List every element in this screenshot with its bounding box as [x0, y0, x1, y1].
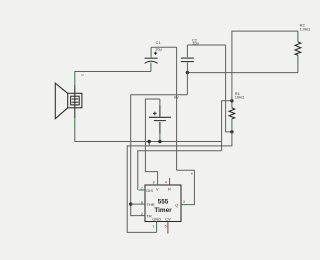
C2 bottom lead	[186, 63, 188, 73]
speaker LS1 horn	[55, 83, 67, 119]
speaker top lead	[74, 74, 76, 86]
svg-text:6: 6	[141, 201, 143, 205]
svg-text:GND: GND	[152, 216, 161, 221]
pin 4 R lead (unconnected)	[169, 178, 171, 185]
svg-text:1.0kΩ: 1.0kΩ	[300, 26, 311, 31]
svg-text:TR: TR	[146, 213, 151, 218]
speaker LS1 inner driver	[71, 96, 80, 105]
svg-text:9V: 9V	[174, 95, 179, 100]
node mark	[191, 173, 193, 175]
wire THR stub	[131, 203, 139, 205]
wire elbow to Q pin	[177, 170, 195, 204]
svg-text:555: 555	[158, 199, 169, 206]
pin 2 TR lead	[139, 215, 145, 217]
svg-text:C1: C1	[156, 40, 162, 45]
wire timing net right (to R2 bottom)	[187, 72, 298, 74]
C1 top lead	[150, 47, 152, 57]
wire GND pin path	[156, 229, 158, 233]
battery top lead	[159, 99, 161, 101]
wire drop from C2 top wire to R1 bottom	[226, 45, 232, 132]
IC U1 555 timer box	[145, 185, 181, 222]
wire THR net left vertical	[131, 95, 139, 216]
wire R1 top link	[222, 101, 232, 151]
junction battery minus	[158, 140, 161, 143]
svg-text:u: u	[82, 73, 84, 77]
svg-text:1: 1	[153, 224, 155, 228]
junction R1 bottom	[230, 130, 233, 133]
C1 plus sign	[154, 52, 157, 55]
battery bottom lead	[159, 122, 161, 134]
battery V1 plates	[149, 116, 171, 118]
svg-text:10kΩ: 10kΩ	[235, 94, 244, 99]
pin 7 DIS lead	[139, 189, 145, 191]
svg-text:3: 3	[183, 200, 185, 204]
wire speaker top to C1 bottom	[75, 72, 151, 74]
capacitor C2	[181, 57, 194, 59]
wire THR net horizontal	[131, 94, 188, 96]
wire drop C2 bottom to THR net	[186, 73, 188, 95]
svg-text:8: 8	[153, 180, 155, 184]
pin 3 Q lead	[181, 204, 189, 206]
svg-text:5: 5	[165, 224, 167, 228]
junction stub	[148, 140, 151, 143]
wire DIS net horizontal (y 150.8)	[138, 151, 222, 190]
svg-text:Timer: Timer	[154, 207, 172, 214]
svg-text:Q: Q	[175, 202, 178, 207]
wire top right rectangle	[232, 31, 298, 101]
battery plus sign	[153, 112, 157, 116]
pin 8 V lead	[157, 179, 159, 186]
svg-text:V: V	[156, 186, 159, 191]
svg-text:R: R	[168, 186, 171, 191]
svg-text:4: 4	[165, 180, 167, 184]
wire C2 top to right	[187, 44, 225, 46]
svg-text:7: 7	[141, 186, 143, 190]
C2 top lead	[186, 45, 188, 57]
junction THR	[129, 202, 132, 205]
wire H1 speaker bottom net	[75, 129, 222, 142]
svg-text:2: 2	[141, 212, 143, 216]
pin 6 THR lead	[139, 203, 145, 205]
capacitor C1 (polarized)	[145, 57, 158, 59]
junction R1 top	[230, 99, 233, 102]
pin 1 GND lead	[156, 222, 158, 229]
wire stub H1-H2	[148, 142, 150, 146]
resistor R2	[297, 31, 299, 42]
wire C1 top	[151, 46, 177, 48]
pin 5 CV lead (unconnected)	[167, 222, 169, 234]
wire H2 ground net	[127, 132, 232, 233]
junction C2 bottom	[186, 71, 189, 74]
svg-text:CV: CV	[165, 216, 171, 221]
resistor R1	[231, 101, 233, 108]
wire battery plus loop to V pin	[145, 99, 160, 179]
speaker LS1 body box	[68, 93, 82, 108]
wire C1 drop to output elbow	[176, 47, 178, 170]
svg-text:DIS: DIS	[146, 188, 153, 193]
